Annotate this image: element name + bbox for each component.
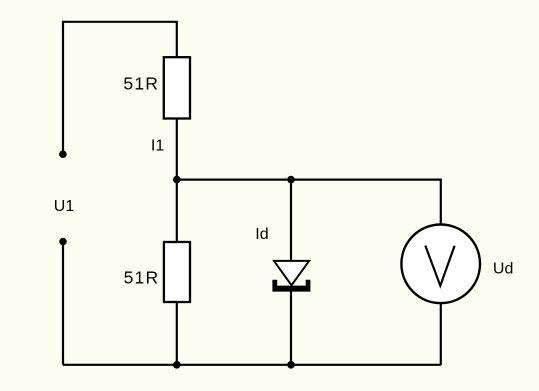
resistor 51R (upper) body (164, 57, 190, 118)
junction dot: diode at bottom rail (287, 361, 295, 369)
wire: U1 negative terminal down to bottom-left corner (62, 242, 64, 365)
wire: R2 bottom to bottom rail (176, 302, 178, 365)
svg-text:Ud: Ud (493, 261, 513, 278)
diode D anode triangle (274, 261, 309, 285)
wire: diode cathode to bottom rail (290, 288, 292, 365)
svg-text:51R: 51R (124, 268, 160, 288)
junction dot: R2 at bottom rail (173, 361, 181, 369)
wire: R1 bottom to node A (176, 119, 178, 180)
voltmeter V body circle (401, 224, 480, 303)
wire: bottom rail (63, 364, 441, 366)
junction dot: diode branch on node A rail (287, 176, 295, 184)
resistor 51R (lower) body (164, 242, 190, 302)
wire: voltmeter bottom to bottom rail (440, 304, 442, 365)
svg-text:U1: U1 (54, 198, 75, 215)
wire: rail junction down to diode anode (290, 180, 292, 261)
wire: U1 positive terminal up, across top rail, down to R1 top (63, 22, 177, 154)
terminal dot: U1 positive (59, 150, 67, 158)
wire: node A down to R2 top (176, 180, 178, 242)
svg-text:Id: Id (255, 226, 268, 243)
svg-text:51R: 51R (123, 73, 159, 93)
voltmeter V glyph (425, 246, 454, 286)
svg-text:I1: I1 (151, 138, 164, 155)
node A junction dot (R1 / R2 / rail) (173, 176, 181, 184)
wire: node A rail to voltmeter branch, down to voltmeter top (177, 180, 441, 225)
terminal dot: U1 negative (59, 238, 67, 246)
diode D cathode bracket bar (272, 280, 310, 292)
